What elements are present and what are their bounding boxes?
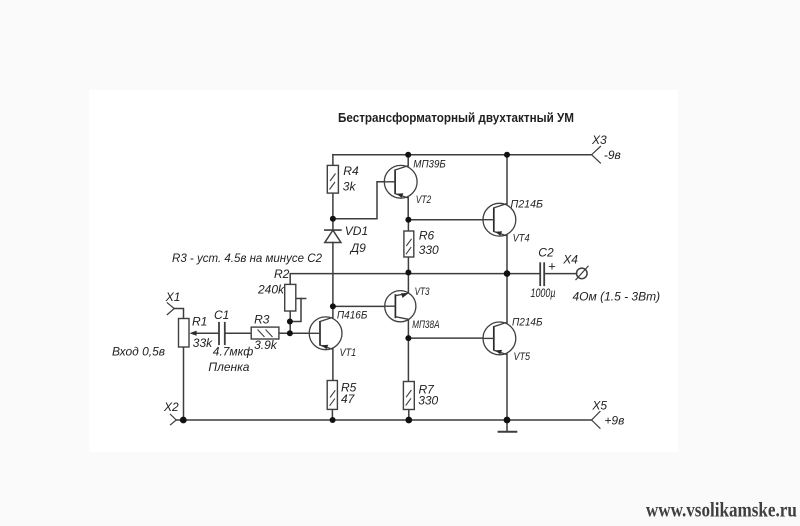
svg-text:-9в: -9в [604,148,621,162]
svg-text:VD1: VD1 [345,224,368,238]
svg-text:П416Б: П416Б [337,309,368,321]
svg-text:МП38А: МП38А [412,319,440,331]
svg-text:R2: R2 [274,267,290,281]
svg-text:VT4: VT4 [513,232,530,244]
svg-text:240k: 240k [257,283,285,297]
svg-text:330: 330 [418,394,438,408]
svg-text:R6: R6 [419,229,435,243]
svg-text:C1: C1 [214,308,229,322]
svg-text:Бестрансформаторный двухтактны: Бестрансформаторный двухтактный УМ [338,111,574,125]
svg-text:R1: R1 [192,315,207,329]
svg-text:R3: R3 [254,313,270,327]
svg-text:4Ом (1.5 - 3Вт): 4Ом (1.5 - 3Вт) [573,290,661,304]
svg-text:3.9k: 3.9k [254,338,278,352]
svg-text:3k: 3k [343,179,357,193]
svg-text:VT1: VT1 [340,347,357,359]
svg-text:+: + [548,259,556,274]
svg-text:www.vsolikamske.ru: www.vsolikamske.ru [646,498,797,522]
svg-text:33k: 33k [193,336,213,350]
svg-text:X4: X4 [562,253,578,267]
svg-text:П214Б: П214Б [511,199,544,211]
svg-text:Пленка: Пленка [208,360,249,374]
svg-text:R3 - уст. 4.5в на минусе С2: R3 - уст. 4.5в на минусе С2 [172,251,322,265]
svg-text:R4: R4 [343,164,359,178]
svg-text:X2: X2 [163,400,179,414]
svg-text:C2: C2 [538,246,554,260]
svg-text:VT5: VT5 [514,351,531,363]
svg-text:1000µ: 1000µ [531,288,556,300]
svg-text:47: 47 [341,392,356,406]
svg-text:МП39Б: МП39Б [413,159,446,171]
svg-text:Вход 0,5в: Вход 0,5в [112,345,165,359]
svg-text:330: 330 [419,243,439,257]
svg-text:X3: X3 [591,133,607,147]
svg-text:X1: X1 [165,290,181,304]
svg-text:+9в: +9в [604,414,624,428]
svg-text:П214Б: П214Б [512,317,543,329]
svg-text:VT2: VT2 [416,194,432,206]
svg-text:VT3: VT3 [415,286,431,298]
svg-text:Д9: Д9 [349,241,366,255]
svg-text:4.7мкф: 4.7мкф [213,345,254,359]
svg-text:X5: X5 [591,399,607,413]
